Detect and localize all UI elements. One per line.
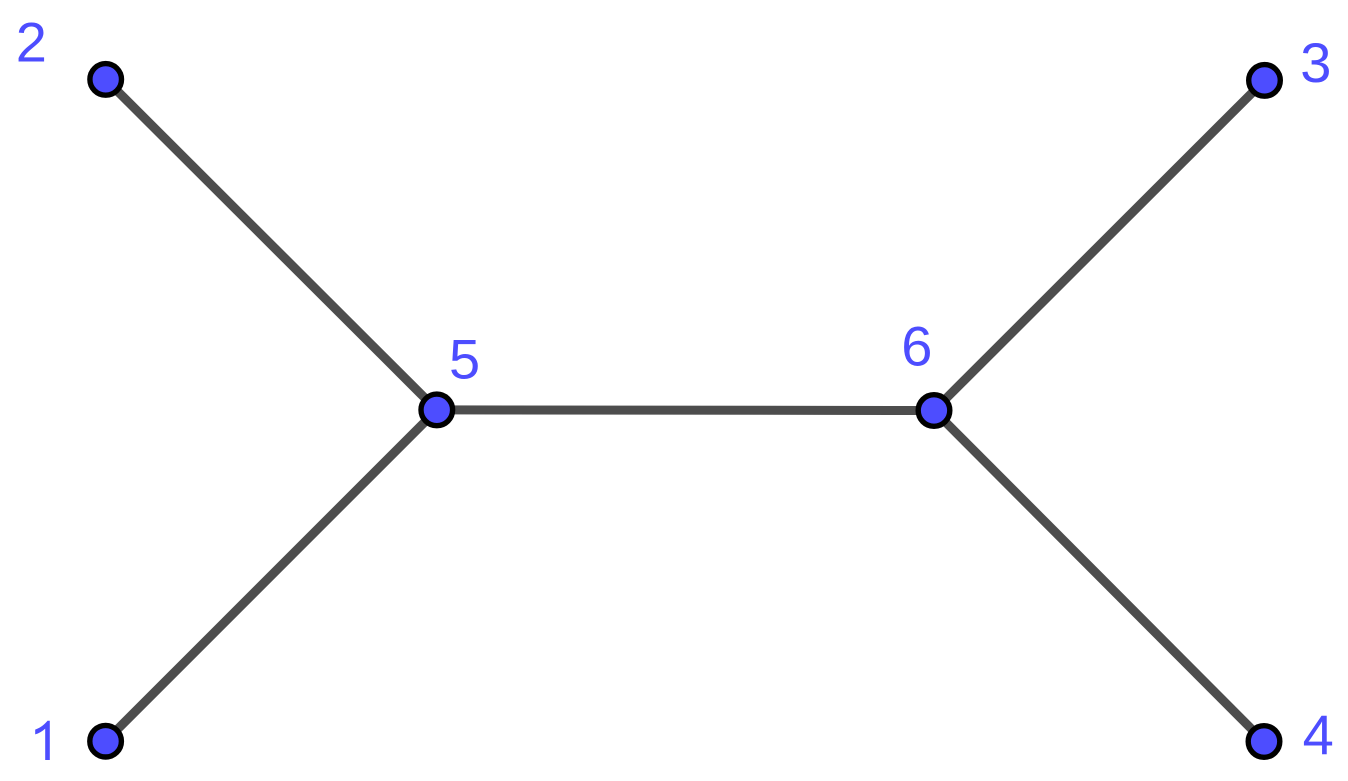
edge 4-6	[934, 411, 1264, 742]
edge 5-6	[437, 405, 934, 415]
node 3	[1249, 65, 1281, 97]
node 5	[421, 394, 453, 426]
svg-text:3: 3	[1300, 31, 1331, 94]
edge 1-5	[106, 410, 437, 741]
svg-text:6: 6	[901, 315, 932, 378]
edge 2-5	[106, 79, 437, 410]
node 1	[90, 725, 122, 757]
node 2	[90, 64, 122, 96]
edge 3-6	[934, 80, 1265, 410]
svg-text:4: 4	[1303, 703, 1334, 766]
node 4	[1248, 726, 1280, 758]
svg-text:2: 2	[16, 10, 47, 73]
svg-text:5: 5	[449, 328, 480, 391]
label 1	[35, 721, 50, 760]
node 6	[918, 395, 950, 427]
